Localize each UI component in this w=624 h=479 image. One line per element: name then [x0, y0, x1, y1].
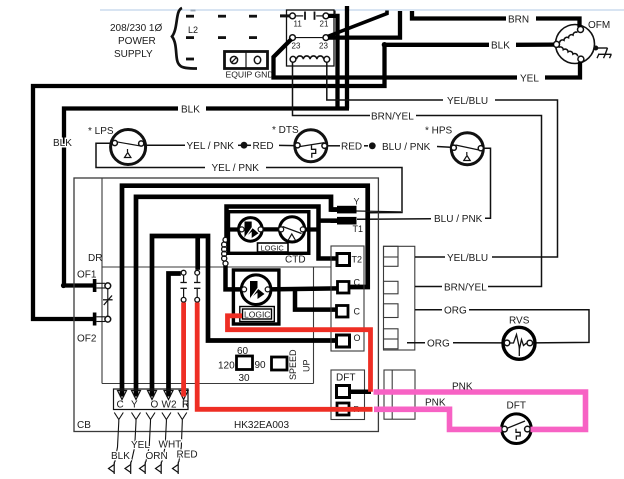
contactor terminal circles [290, 13, 330, 62]
svg-text:* LPS: * LPS [88, 126, 114, 137]
terminal DFT-1 [337, 386, 350, 398]
svg-text:BLK: BLK [111, 451, 130, 462]
wire pin riser from O run [195, 234, 200, 270]
wire red pin-right to DFT plug pin 2 [197, 303, 372, 410]
crop artifact line [100, 9, 624, 11]
board CB outline [74, 178, 378, 432]
svg-text:YEL/BLU: YEL/BLU [447, 96, 488, 107]
svg-text:BRN/YEL: BRN/YEL [444, 283, 487, 294]
wire LPS to DTS (YEL/PNK - RED) [144, 144, 295, 146]
LOGIC label relay2 [240, 307, 274, 322]
relay contact OF2 terminal [93, 313, 111, 326]
contactor coil [297, 56, 324, 59]
strip spade R [179, 391, 188, 400]
field wire forks below strip [114, 413, 187, 463]
svg-text:Y: Y [354, 197, 360, 207]
svg-text:PNK: PNK [452, 382, 473, 393]
terminal strip box [114, 389, 189, 410]
junction dot BLK tee [382, 42, 388, 48]
wire BLK horizontal (OF1 run) [64, 109, 349, 286]
svg-text:LOGIC: LOGIC [244, 310, 270, 320]
terminal O [337, 335, 350, 347]
OFM winding top-left [560, 32, 578, 43]
svg-text:21: 21 [320, 20, 329, 29]
svg-text:23: 23 [292, 42, 301, 51]
L1 remnant mark [191, 10, 196, 12]
wire coil-feed riser (relay1 area) [227, 207, 338, 259]
svg-text:BLK: BLK [53, 138, 72, 149]
plug connector DFT (lower) [384, 370, 415, 419]
wire 23R diagonal [328, 11, 388, 37]
contactor contact marks 11-21 [295, 12, 323, 20]
wire OF1 lead [62, 283, 94, 287]
svg-text:120: 120 [218, 361, 235, 372]
Y spade terminal [331, 206, 357, 214]
svg-text:C: C [117, 400, 124, 411]
svg-text:CB: CB [77, 420, 91, 431]
svg-text:OF2: OF2 [77, 334, 97, 345]
wire YEL/PNK lower (LPS left around) [96, 143, 402, 213]
wire riser to T1 spade [319, 218, 339, 223]
svg-text:C: C [354, 307, 361, 317]
svg-text:11: 11 [294, 20, 303, 29]
ground chassis symbol at OFM [593, 46, 611, 59]
DFT terminal box [331, 370, 365, 420]
relay2 triac circle [241, 275, 271, 305]
wire BLU/PNK lower (T1 to HPS) [357, 148, 491, 219]
thermostat switch DTS [272, 125, 327, 162]
svg-text:SPEED: SPEED [288, 349, 298, 380]
relay1 contact circle [280, 217, 305, 242]
motor OFM [554, 20, 611, 64]
svg-text:YEL / PNK: YEL / PNK [187, 141, 235, 152]
svg-text:30: 30 [239, 373, 251, 384]
wire to cropped top at x=347 [345, 6, 349, 109]
svg-text:DFT: DFT [336, 373, 355, 384]
wire strip-C to C terminal (outer staircase) [122, 186, 368, 397]
relay contact NC blade OF1-OF2 [103, 289, 113, 317]
svg-text:OFM: OFM [588, 20, 610, 31]
svg-text:L2: L2 [188, 25, 198, 35]
thermostat DFT (outdoor coil) [502, 401, 532, 444]
wire 23R to riser x=400 [328, 11, 400, 38]
svg-text:LOGIC: LOGIC [261, 244, 285, 253]
svg-text:UP: UP [302, 359, 312, 372]
svg-text:BLK: BLK [491, 41, 510, 52]
wire OF2 long run to BLK (OFM left) [33, 45, 554, 319]
relay2 terminal circles [242, 287, 271, 292]
svg-text:BLK: BLK [181, 105, 200, 116]
wire pink DFT loop upper [374, 392, 586, 429]
pressure switch HPS [425, 126, 483, 165]
wire BRN/YEL upper (coil left) [293, 62, 542, 287]
svg-text:* HPS: * HPS [425, 126, 453, 137]
svg-text:C: C [354, 278, 361, 288]
svg-text:ORG: ORG [444, 306, 467, 317]
svg-text:RED: RED [253, 141, 274, 152]
board inner partition lines [102, 178, 331, 384]
wire ORG upper run to RVS [415, 310, 589, 343]
power supply label [110, 23, 162, 60]
T1 spade terminal [331, 217, 357, 225]
wire BRN/YEL to plug [415, 286, 442, 288]
wire red jumper pin-left to R [181, 303, 186, 397]
wire relay1 right terminal [301, 227, 319, 231]
svg-text:YEL / PNK: YEL / PNK [212, 163, 260, 174]
strip spade O [148, 391, 157, 400]
wire YEL/BLU to plug [415, 256, 445, 258]
svg-text:DFT: DFT [507, 401, 526, 412]
DIP timing pins 60/120/90/30 [218, 346, 312, 384]
svg-text:* DTS: * DTS [272, 125, 299, 136]
svg-text:ORN: ORN [146, 451, 168, 462]
relay U1 (CTD) box [229, 212, 309, 254]
svg-text:POWER: POWER [118, 36, 156, 47]
svg-text:O: O [354, 333, 361, 343]
svg-text:W2: W2 [162, 400, 177, 411]
junction dot splice [241, 142, 248, 149]
relay K2 (defrost) box [233, 270, 279, 324]
junction dot splice [369, 142, 376, 149]
wire strip-Y to Y spade [136, 197, 338, 397]
wire Y spade lead to plug shell [357, 210, 402, 213]
svg-text:RED: RED [177, 450, 198, 461]
wire from terminal 21 down [328, 16, 338, 109]
wire strip-W2 to pin-left [169, 274, 181, 397]
terminal column box [331, 246, 364, 351]
svg-text:Y: Y [131, 400, 138, 411]
wire red LOGIC to DFT-1 [228, 316, 371, 392]
svg-text:PNK: PNK [425, 398, 446, 409]
plug connector upper [384, 246, 415, 350]
wire YEL (23L to OFM bottom) [274, 39, 581, 78]
strip spade W2 [164, 391, 173, 400]
svg-text:BRN/YEL: BRN/YEL [371, 112, 414, 123]
wire ORG lower to RVS [407, 342, 504, 344]
contactor C box [287, 10, 335, 66]
svg-text:BRN: BRN [508, 15, 529, 26]
LOGIC label relay1 [258, 243, 289, 253]
svg-text:RVS: RVS [509, 316, 530, 327]
wire YEL/BLU upper (coil right) [327, 62, 558, 257]
terminal T2 [337, 254, 350, 266]
junction dot OF1 [61, 283, 66, 288]
wire ground dashed field wiring [186, 58, 194, 61]
solenoid RVS [503, 316, 535, 360]
quick-connect lug C wire [109, 462, 179, 475]
svg-text:23: 23 [319, 42, 328, 51]
svg-text:RED: RED [341, 142, 362, 153]
strip spade Y [132, 391, 141, 400]
EQUIP GND terminal block [225, 52, 274, 80]
svg-text:BLU / PNK: BLU / PNK [434, 214, 483, 225]
strip spade C [118, 391, 127, 400]
svg-text:EQUIP GND: EQUIP GND [226, 70, 274, 80]
wire DTS to HPS (RED - BLU/PNK) [328, 146, 451, 147]
wire stub above 21 [334, 11, 336, 16]
OFM winding left-bottom [559, 47, 578, 56]
svg-text:CTD: CTD [285, 255, 306, 266]
relay1 terminal circles [239, 227, 305, 232]
svg-text:208/230 1Ø: 208/230 1Ø [110, 23, 162, 34]
svg-text:SUPPLY: SUPPLY [114, 49, 153, 60]
svg-text:DR: DR [88, 253, 102, 264]
svg-text:T2: T2 [352, 255, 363, 265]
wire lead to terminal 11 [280, 14, 290, 17]
disconnect pin right [194, 270, 200, 302]
relay1 triac circle [239, 218, 263, 242]
svg-text:HK32EA003: HK32EA003 [234, 420, 289, 431]
svg-text:BLU / PNK: BLU / PNK [382, 142, 431, 153]
wire coil bottom to relay2 [226, 266, 243, 289]
wire L1 dashed field wiring [186, 15, 257, 18]
wire pink DFT loop lower [374, 409, 502, 429]
svg-text:ORG: ORG [427, 339, 450, 350]
wire DFT-1 stub [350, 390, 371, 395]
terminal DFT-2 [337, 403, 349, 415]
svg-text:YEL: YEL [520, 74, 539, 85]
disconnect pin left [180, 270, 186, 302]
wire relay1 link bar [260, 227, 281, 231]
spring coil component [222, 237, 228, 266]
svg-text:YEL: YEL [131, 440, 150, 451]
wire L2 dashed field wiring [186, 36, 257, 39]
wire strip-O riser [152, 236, 336, 397]
relay contact OF1 terminal [93, 279, 111, 292]
pressure switch LPS [88, 126, 146, 165]
wire BRN [412, 11, 580, 27]
svg-text:O: O [151, 400, 159, 411]
svg-text:R: R [182, 400, 189, 411]
wire relay1 left terminal [225, 227, 244, 231]
svg-text:90: 90 [255, 360, 267, 371]
terminal C (upper) [338, 282, 350, 294]
power supply brace [172, 8, 197, 69]
wire relay2 right to C terminals [269, 288, 338, 309]
svg-text:T1: T1 [353, 224, 364, 234]
terminal C (lower) [337, 306, 349, 318]
wire 23L-23R link [295, 37, 323, 39]
svg-text:YEL/BLU: YEL/BLU [447, 253, 488, 264]
svg-text:OF1: OF1 [77, 270, 97, 281]
